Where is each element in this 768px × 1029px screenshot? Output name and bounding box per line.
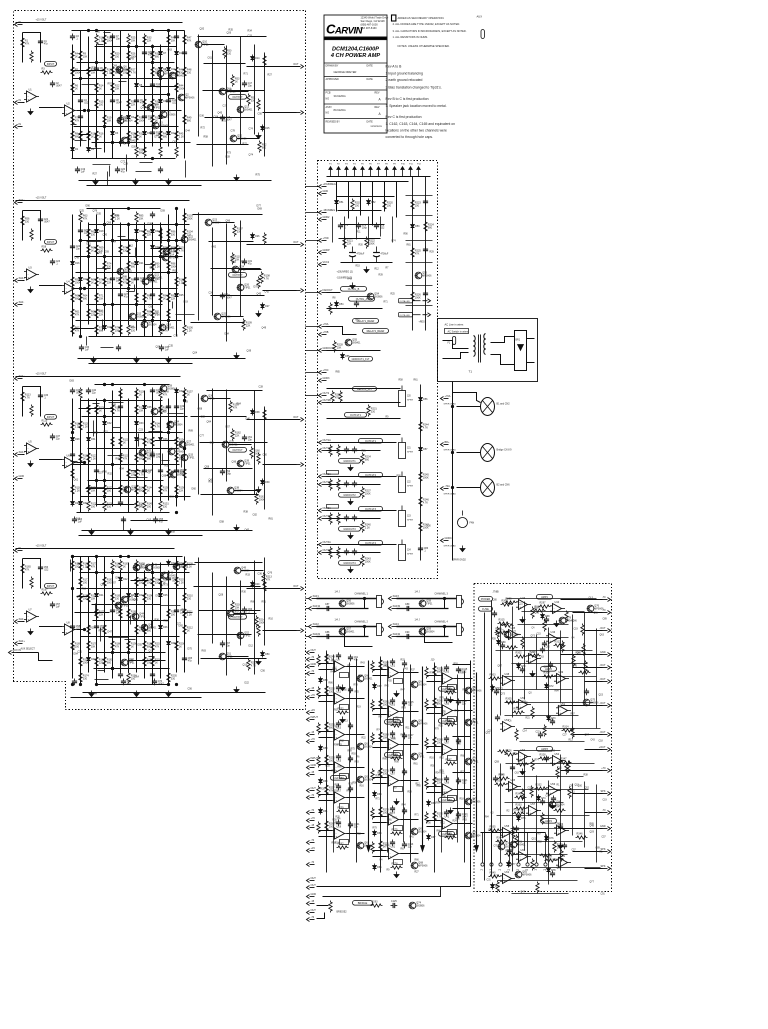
wire	[88, 448, 179, 450]
transistor Q36	[201, 395, 215, 402]
resistor R161	[255, 493, 266, 505]
svg-text:R80: R80	[96, 31, 101, 34]
resistor R50	[223, 47, 232, 59]
svg-text:+15: +15	[311, 847, 316, 850]
resistor R280	[425, 667, 428, 679]
capacitor C146	[544, 756, 549, 763]
svg-text:Rev A to B: Rev A to B	[386, 65, 403, 69]
wire	[39, 107, 62, 109]
IC U34	[448, 685, 457, 690]
rectifier BR1	[515, 331, 527, 371]
resistor R118	[71, 484, 81, 496]
resistor R309	[501, 600, 513, 607]
wire	[518, 624, 569, 626]
svg-text:2.2K: 2.2K	[187, 330, 192, 333]
transistor Q52	[237, 632, 251, 639]
ground	[340, 685, 345, 691]
svg-text:-70: -70	[311, 656, 315, 659]
svg-text:Q63: Q63	[98, 252, 103, 255]
junction	[79, 683, 81, 685]
wire	[360, 182, 362, 216]
resistor R323	[584, 661, 587, 673]
svg-text:OUT: OUT	[311, 877, 317, 880]
svg-text:D76: D76	[549, 837, 554, 840]
wire	[319, 695, 333, 697]
svg-text:OUT1A: OUT1A	[323, 439, 332, 442]
op-amp U17	[332, 790, 347, 804]
svg-text:22K: 22K	[147, 40, 152, 43]
svg-text:C21: C21	[519, 604, 524, 606]
resistor R80	[119, 324, 122, 336]
wire	[585, 681, 603, 683]
wire	[172, 302, 174, 309]
svg-text:C50: C50	[258, 113, 263, 116]
svg-text:C22: C22	[536, 732, 541, 734]
svg-text:R76: R76	[440, 698, 445, 700]
svg-text:GND: GND	[311, 893, 317, 896]
resistor R82	[127, 260, 136, 272]
svg-text:Q63: Q63	[232, 261, 237, 264]
resistor R253	[325, 721, 336, 733]
transistor Q4	[169, 72, 185, 79]
junction	[143, 319, 145, 321]
resistor R126	[95, 404, 106, 416]
wire	[453, 772, 471, 774]
svg-text:D31: D31	[91, 438, 96, 441]
svg-text:R278: R278	[392, 863, 399, 866]
svg-text:Q11: Q11	[149, 650, 154, 653]
resistor R107	[233, 225, 244, 237]
ground	[554, 621, 559, 627]
svg-text:10K: 10K	[107, 120, 112, 123]
node OUTPUT	[229, 95, 247, 100]
svg-text:R49: R49	[151, 456, 156, 459]
wire	[505, 802, 564, 804]
svg-text:2N5401: 2N5401	[168, 576, 177, 578]
wire	[254, 391, 256, 495]
svg-text:R19: R19	[332, 661, 337, 663]
wire	[306, 626, 309, 628]
wire	[319, 800, 333, 802]
junction	[71, 555, 73, 557]
capacitor C111	[402, 808, 407, 815]
ground	[558, 843, 563, 849]
svg-text:R90: R90	[395, 762, 400, 764]
wire	[128, 223, 130, 325]
svg-text:2N5401: 2N5401	[244, 110, 253, 112]
svg-text:2N3904: 2N3904	[556, 805, 565, 807]
svg-text:47K: 47K	[91, 566, 96, 569]
resistor R222	[365, 237, 376, 249]
svg-text:OUTA-LED: OUTA-LED	[400, 300, 411, 303]
wire	[573, 667, 603, 669]
wire	[76, 320, 182, 322]
wire	[347, 734, 365, 736]
resistor R189	[127, 608, 138, 620]
capacitor C93	[348, 687, 353, 694]
ground	[550, 803, 555, 809]
resistor R181	[103, 576, 114, 588]
svg-text:10p: 10p	[408, 737, 413, 740]
capacitor C8	[110, 98, 122, 105]
resistor R298	[565, 611, 568, 623]
resistor R308	[579, 671, 591, 674]
ground	[133, 179, 138, 185]
svg-text:C75: C75	[174, 335, 179, 338]
transistor Q66	[411, 753, 425, 760]
svg-text:D21: D21	[139, 262, 144, 265]
wire	[333, 655, 335, 853]
resistor R162	[231, 429, 242, 441]
capacitor C34	[116, 345, 121, 352]
wire	[109, 166, 111, 177]
svg-text:R86: R86	[437, 831, 442, 833]
junction	[95, 29, 97, 31]
wire	[323, 887, 441, 897]
svg-text:R40: R40	[457, 744, 462, 746]
wire	[561, 654, 603, 656]
svg-text:Q26: Q26	[244, 284, 249, 287]
resistor R83	[127, 276, 136, 288]
svg-text:+: +	[530, 811, 532, 815]
wire	[71, 124, 77, 126]
wire	[319, 794, 333, 796]
wire	[136, 391, 138, 507]
svg-text:4.7K: 4.7K	[251, 665, 256, 668]
connector pin +70B	[319, 331, 329, 337]
diode D27	[261, 303, 271, 310]
svg-text:R24: R24	[453, 821, 458, 823]
transistor Q44	[132, 613, 146, 620]
svg-text:2N5401: 2N5401	[176, 76, 185, 78]
diode D13	[175, 50, 185, 57]
svg-text:D63: D63	[168, 49, 173, 52]
svg-text:INPUT: INPUT	[311, 716, 319, 719]
connector pin J1	[329, 164, 333, 177]
resistor R136	[135, 388, 146, 400]
wire	[507, 637, 569, 639]
wire	[396, 182, 398, 218]
svg-text:100K: 100K	[365, 493, 371, 496]
transistor Q48	[121, 659, 135, 666]
connector pin SPK	[600, 865, 610, 871]
resistor R112	[263, 233, 266, 245]
wire	[514, 750, 561, 752]
svg-text:.022: .022	[84, 102, 89, 105]
resistor R341	[540, 854, 552, 857]
resistor R98	[167, 260, 177, 272]
resistor R9	[79, 50, 88, 62]
svg-text:Q51: Q51	[226, 653, 231, 656]
resistor R165	[21, 563, 32, 575]
connector J21	[399, 438, 414, 459]
svg-text:C68: C68	[149, 306, 154, 309]
op-amp U45	[506, 627, 521, 639]
capacitor C113	[402, 842, 414, 849]
svg-text:1K: 1K	[123, 442, 126, 445]
wire	[239, 269, 262, 271]
svg-text:R297: R297	[540, 602, 547, 605]
wire	[373, 708, 387, 710]
wire	[98, 670, 105, 672]
wire	[401, 672, 419, 674]
svg-text:C36: C36	[258, 573, 263, 576]
svg-text:R80: R80	[338, 767, 343, 769]
resistor R312	[554, 641, 566, 648]
resistor R81	[127, 244, 130, 256]
svg-text:.0047: .0047	[226, 297, 233, 300]
ground	[394, 872, 399, 878]
wire	[585, 749, 603, 751]
svg-text:U37: U37	[445, 742, 450, 745]
transistor Q11	[219, 88, 236, 95]
svg-text:R342: R342	[518, 760, 525, 763]
wire	[140, 162, 153, 164]
svg-text:Q17: Q17	[71, 647, 76, 650]
svg-text:4 CH POWER AMP: 4 CH POWER AMP	[330, 53, 380, 59]
wire	[306, 240, 319, 242]
resistor R303	[489, 674, 501, 681]
wire	[95, 679, 109, 681]
capacitor C135	[538, 732, 543, 739]
svg-text:680: 680	[107, 662, 112, 665]
transistor Q9	[157, 70, 174, 77]
svg-text:100: 100	[75, 646, 80, 649]
svg-text:+: +	[390, 854, 392, 858]
svg-text:47K: 47K	[187, 40, 192, 43]
svg-text:TIP31: TIP31	[188, 458, 195, 460]
wire	[23, 454, 25, 456]
svg-text:R22: R22	[362, 738, 367, 740]
wire	[112, 571, 114, 679]
resistor R119	[79, 388, 82, 400]
resistor R48	[183, 66, 192, 78]
transistor Q22	[181, 236, 197, 243]
svg-text:XLR-: XLR-	[19, 301, 25, 304]
svg-text:2N5401: 2N5401	[158, 412, 167, 414]
svg-text:C21: C21	[558, 707, 563, 709]
svg-text:R60: R60	[116, 458, 121, 461]
wire	[561, 599, 603, 601]
wire	[212, 573, 214, 644]
connector pin FANOUT	[319, 289, 334, 295]
svg-text:+REG: +REG	[419, 322, 426, 324]
ground	[91, 357, 96, 363]
svg-text:R55: R55	[439, 726, 444, 728]
svg-text:R90: R90	[404, 234, 409, 236]
op-amp U41	[440, 816, 455, 830]
svg-text:D59: D59	[161, 210, 166, 213]
resistor R87	[143, 228, 152, 240]
svg-text:C83: C83	[521, 812, 526, 814]
svg-text:+70: +70	[311, 738, 316, 741]
svg-text:1K: 1K	[131, 282, 134, 285]
wire	[87, 208, 161, 210]
junction	[167, 93, 169, 95]
svg-text:Q34: Q34	[174, 421, 179, 424]
wire	[72, 557, 74, 679]
wire	[421, 667, 425, 852]
wire	[520, 741, 585, 743]
svg-text:Q9: Q9	[164, 70, 168, 73]
svg-text:D45: D45	[163, 594, 168, 597]
svg-text:U58: U58	[505, 825, 510, 828]
op-amp U9	[332, 659, 347, 673]
transistor Q68	[411, 862, 428, 869]
resistor R3	[41, 68, 53, 75]
lamp LP3	[481, 479, 511, 497]
svg-text:R15: R15	[164, 620, 169, 623]
wire	[226, 656, 249, 658]
junction	[71, 587, 73, 589]
svg-text:D57: D57	[112, 582, 117, 585]
junction	[103, 303, 105, 305]
wire	[197, 144, 249, 146]
resistor R145	[143, 500, 154, 512]
connector pin J5	[361, 164, 365, 177]
transistor Q58	[419, 600, 433, 607]
wire	[168, 571, 170, 685]
svg-text:R10: R10	[332, 843, 337, 845]
svg-text:2N5401: 2N5401	[186, 445, 195, 447]
svg-text:PCB: PCB	[326, 92, 331, 95]
transistor Q79	[498, 843, 514, 850]
diode D11	[167, 66, 176, 73]
transistor Q33	[181, 454, 195, 461]
svg-text:D25: D25	[179, 294, 184, 297]
svg-text:Q41: Q41	[180, 563, 185, 566]
transistor Q78	[559, 617, 575, 624]
transistor Q61	[357, 743, 373, 750]
svg-text:47K: 47K	[415, 253, 420, 256]
wire	[240, 581, 242, 646]
svg-text:+15: +15	[311, 709, 316, 712]
wire	[338, 210, 382, 212]
wire	[306, 636, 309, 638]
connector pin BR+	[441, 441, 450, 447]
wire	[120, 31, 122, 147]
transistor Q15	[129, 313, 145, 320]
wire	[427, 826, 441, 828]
wire	[144, 37, 146, 153]
resistor R210	[183, 592, 194, 604]
svg-text:D15: D15	[265, 127, 270, 130]
connector pin OUT2B	[319, 399, 332, 405]
svg-text:BR1: BR1	[516, 340, 521, 342]
svg-text:Q76: Q76	[268, 572, 273, 575]
wire	[181, 456, 183, 468]
resistor R274	[371, 808, 374, 820]
connector pin -OUT	[599, 702, 610, 708]
wire	[397, 636, 449, 638]
svg-text:D50: D50	[265, 653, 270, 656]
svg-text:C37: C37	[223, 105, 228, 108]
resistor R290	[433, 810, 444, 822]
transistor Q46	[141, 624, 157, 631]
junction	[71, 683, 73, 685]
wire	[527, 362, 535, 364]
wire	[512, 757, 514, 872]
wire	[120, 223, 122, 337]
svg-text:D95: D95	[156, 595, 161, 598]
svg-text:Q40: Q40	[140, 564, 145, 567]
wire	[373, 714, 387, 716]
wire	[79, 408, 114, 410]
svg-text:C89: C89	[596, 848, 601, 850]
svg-text:Q36: Q36	[208, 395, 213, 398]
resistor R166	[30, 577, 33, 589]
svg-text:C125: C125	[391, 900, 397, 903]
svg-text:R79: R79	[373, 828, 378, 830]
svg-text:10K: 10K	[115, 88, 120, 91]
connector pin OUT	[307, 909, 317, 915]
connector pin XLR1	[309, 595, 320, 601]
svg-text:R37: R37	[411, 670, 416, 672]
diode D60	[319, 778, 329, 785]
node AC label	[445, 329, 469, 334]
diode D76	[545, 835, 555, 842]
svg-text:330: 330	[147, 598, 152, 601]
svg-text:D42: D42	[123, 578, 128, 581]
resistor R318	[581, 624, 584, 636]
resistor R285	[433, 736, 444, 748]
capacitor C56	[38, 565, 49, 572]
resistor R256	[317, 756, 320, 768]
capacitor C80	[344, 481, 349, 488]
connector pin -70	[602, 596, 611, 602]
svg-text:R51: R51	[465, 721, 470, 723]
svg-text:-OUT: -OUT	[599, 678, 606, 681]
svg-text:TIP31: TIP31	[418, 757, 425, 759]
node AMP3	[537, 747, 553, 752]
svg-text:R86: R86	[386, 846, 391, 848]
resistor R72	[95, 308, 104, 320]
resistor R342	[517, 760, 529, 767]
svg-text:22K: 22K	[179, 490, 184, 493]
svg-text:R12: R12	[385, 666, 390, 668]
svg-text:INPUT: INPUT	[47, 585, 55, 588]
svg-text:R43: R43	[355, 762, 360, 764]
svg-text:Q76: Q76	[594, 605, 599, 608]
svg-text:1K: 1K	[131, 646, 134, 649]
svg-text:C29: C29	[513, 754, 518, 756]
resistor R150	[159, 484, 170, 496]
wire	[484, 613, 486, 881]
diode D32	[103, 420, 113, 427]
svg-text:SPKR LEAD: SPKR LEAD	[444, 493, 457, 496]
wire	[176, 391, 178, 507]
connector pin INPUT	[307, 716, 319, 722]
svg-text:+70D: +70D	[323, 237, 329, 240]
svg-text:+: +	[28, 617, 30, 621]
svg-text:Bridge CN 8 9: Bridge CN 8 9	[497, 449, 513, 452]
wire	[397, 598, 457, 600]
wire	[161, 582, 163, 592]
svg-text:47K: 47K	[123, 458, 128, 461]
wire	[317, 886, 471, 888]
svg-text:Q30: Q30	[175, 448, 180, 451]
capacitor C124	[444, 810, 449, 817]
svg-text:Q97: Q97	[585, 735, 590, 737]
capacitor C25	[78, 228, 89, 235]
diode D50	[261, 651, 271, 658]
connector pin OUT	[293, 585, 303, 591]
svg-text:R99: R99	[112, 404, 117, 407]
svg-text:47p: 47p	[248, 263, 253, 266]
svg-text:Q96: Q96	[226, 220, 231, 223]
svg-text:+: +	[336, 834, 338, 838]
svg-text:+: +	[504, 681, 506, 685]
